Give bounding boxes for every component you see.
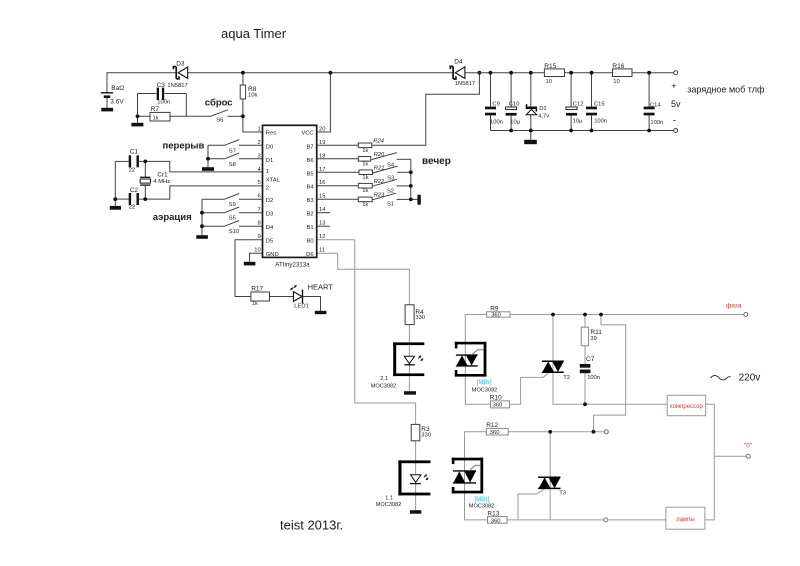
svg-text:18: 18: [319, 153, 325, 159]
svg-text:компрессор: компрессор: [670, 404, 703, 410]
wire C9 drop: [490, 73, 492, 107]
node bus S1: [409, 198, 413, 202]
svg-text:T2: T2: [563, 375, 570, 381]
box лампы: [666, 507, 705, 529]
capacitor C3: [157, 88, 171, 106]
svg-text:B0: B0: [307, 239, 314, 245]
svg-text:D2: D2: [539, 106, 546, 112]
wire C14 bottom: [648, 115, 650, 130]
svg-text:1k: 1k: [362, 202, 368, 208]
svg-text:S1: S1: [387, 202, 394, 208]
wire C12 bottom: [570, 115, 572, 130]
wire C10 drop: [510, 73, 512, 107]
wire S9 common: [202, 198, 225, 200]
node C10 bottom: [509, 129, 513, 133]
svg-text:S4: S4: [387, 163, 395, 169]
svg-text:S3: S3: [387, 176, 394, 182]
capacitor C10: [506, 102, 521, 126]
svg-text:R12: R12: [486, 422, 498, 429]
svg-text:[МВт]: [МВт]: [475, 497, 490, 503]
ground pin10: [244, 262, 256, 266]
svg-text:Cr1: Cr1: [157, 171, 168, 178]
wire pin16 to R22: [317, 185, 359, 187]
svg-text:GND: GND: [266, 252, 279, 258]
capacitor C12: [566, 101, 584, 124]
switch S2 blade: [372, 179, 397, 186]
svg-text:C12: C12: [573, 101, 584, 107]
switch S10 blade: [225, 221, 240, 227]
wire C7 to kompressor line: [584, 373, 586, 404]
wire R11 to C7: [584, 346, 586, 364]
node C15 bottom: [590, 129, 594, 133]
wire R17 to LED1: [270, 296, 294, 298]
ground under opto 1.1: [410, 510, 421, 514]
svg-text:перерыв: перерыв: [163, 141, 205, 152]
switch S9 blade: [225, 194, 240, 200]
resistor R10: [490, 395, 510, 409]
svg-text:D5: D5: [266, 239, 273, 245]
wire pin11 D6 to R4: [317, 253, 410, 305]
svg-text:S5: S5: [229, 216, 236, 222]
wire mains branch to connector: [594, 315, 626, 432]
svg-text:10: 10: [546, 79, 552, 85]
svg-text:вечер: вечер: [422, 156, 451, 167]
resistor R17: [251, 286, 270, 308]
terminal plus: [674, 71, 678, 75]
node D2 top: [529, 71, 533, 75]
svg-text:VCC: VCC: [301, 131, 313, 137]
ground under opto 2.1: [404, 391, 416, 395]
svg-text:S7: S7: [229, 149, 236, 155]
svg-text:HEART: HEART: [308, 283, 334, 292]
wire C15 bottom: [591, 115, 593, 130]
terminal minus: [674, 129, 678, 133]
wire pin14 stub: [317, 212, 330, 214]
node C12 top: [569, 71, 573, 75]
svg-text:19: 19: [319, 140, 325, 146]
svg-text:220v: 220v: [739, 373, 761, 384]
wire S9 to pin6: [239, 198, 263, 200]
wire T2 vertical: [553, 315, 667, 405]
svg-text:R20: R20: [374, 152, 385, 158]
svg-text:360: 360: [493, 403, 503, 409]
node rail VCC: [329, 71, 333, 75]
wire S1 contact: [397, 198, 411, 200]
wire pin12 B0 to R3: [317, 240, 416, 425]
resistor R23: [358, 193, 385, 209]
node C7 bottom: [583, 402, 587, 406]
svg-text:360: 360: [491, 518, 501, 524]
wire pin10 to ground: [250, 253, 263, 262]
wire R24 to 5v branch: [372, 73, 480, 146]
svg-text:11: 11: [319, 248, 325, 254]
svg-text:C7: C7: [586, 356, 595, 363]
wire R3 to opto1.1 LED and ground: [415, 441, 417, 510]
terminal фаза: [744, 313, 748, 317]
svg-text:1k: 1k: [362, 148, 368, 154]
wire pin18 to R20: [317, 158, 359, 160]
svg-text:D4: D4: [454, 58, 463, 65]
svg-text:13: 13: [319, 221, 325, 227]
svg-text:C2: C2: [130, 187, 139, 194]
svg-text:1k: 1k: [252, 301, 258, 307]
node C10 top: [509, 71, 513, 75]
svg-text:10µ: 10µ: [510, 119, 520, 125]
wire crystal top: [144, 161, 146, 177]
node rail branch: [478, 71, 482, 75]
terminal connector upper: [604, 430, 608, 434]
svg-text:S9: S9: [229, 202, 236, 208]
wire crystal bottom: [144, 185, 146, 199]
node R8 S6: [241, 114, 245, 118]
wire R7 right to S6: [170, 115, 211, 117]
switch S3 blade: [373, 166, 398, 173]
zener D2: [526, 104, 550, 119]
wire S10 to pin8: [239, 225, 263, 227]
svg-text:D6: D6: [306, 252, 313, 258]
resistor R12: [486, 422, 508, 436]
wire R9 left to opto triac upper: [465, 315, 490, 405]
opto T1.1 triac side box: [452, 458, 483, 494]
node connector junction: [592, 430, 596, 434]
svg-text:16: 16: [319, 180, 325, 186]
node C2 junction: [143, 197, 147, 201]
svg-text:D3: D3: [176, 61, 185, 68]
node S10 common: [200, 224, 204, 228]
wire battery to top rail: [107, 73, 176, 93]
node D2 bottom rail: [529, 129, 533, 133]
wire pin19 to R24: [317, 144, 359, 146]
wire R12 left to opto triac lower: [465, 432, 488, 520]
node bus S2: [409, 184, 413, 188]
ground under LED1: [315, 311, 327, 314]
svg-text:2.1: 2.1: [380, 376, 388, 382]
svg-text:1N5817: 1N5817: [167, 83, 187, 89]
wire C9 bottom: [490, 115, 492, 130]
switch S8 blade: [225, 153, 240, 159]
svg-text:MOC3082: MOC3082: [472, 388, 498, 394]
svg-text:-: -: [673, 116, 676, 127]
node C14 bottom: [647, 129, 651, 133]
LED inside opto 1.1: [410, 474, 429, 484]
wire S4 contact: [397, 158, 411, 160]
pin numbers left: [254, 126, 261, 253]
pin labels right: [301, 131, 314, 259]
svg-text:1k: 1k: [362, 188, 368, 194]
svg-text:39: 39: [590, 336, 596, 342]
svg-text:1: 1: [257, 126, 260, 132]
svg-text:B1: B1: [307, 225, 314, 231]
svg-text:teist 2013г.: teist 2013г.: [280, 518, 343, 533]
svg-text:8: 8: [257, 221, 260, 227]
svg-text:1k: 1k: [362, 175, 368, 181]
capacitor C9: [485, 102, 503, 126]
wire D2 bottom: [530, 115, 532, 140]
node S5 common: [200, 211, 204, 215]
wire R8 top: [242, 73, 244, 85]
svg-text:D1: D1: [266, 158, 273, 164]
ground under C1 C2: [110, 206, 121, 210]
resistor R22: [358, 179, 385, 194]
svg-text:+: +: [671, 81, 676, 91]
svg-text:22: 22: [129, 205, 135, 211]
capacitor C1: [129, 148, 139, 173]
wire pin13 stub: [317, 225, 330, 227]
resistor R20: [358, 152, 385, 168]
wire S3 contact: [397, 171, 411, 173]
svg-text:D4: D4: [266, 225, 274, 231]
svg-text:22: 22: [129, 167, 135, 173]
svg-text:10k: 10k: [248, 93, 257, 99]
wire S2 contact: [397, 185, 411, 187]
wire LED1 to ground: [303, 297, 321, 311]
wire pin9 to R17: [235, 240, 263, 297]
svg-text:LED1: LED1: [294, 304, 309, 310]
wire kompressor to lamps right bus: [705, 404, 714, 520]
wire pin15 to R23: [317, 198, 359, 200]
wire bottom rail: [491, 130, 674, 132]
svg-text:10: 10: [254, 248, 260, 254]
op-amp U1 ATtiny2313a body: [263, 125, 317, 257]
svg-text:1: 1: [266, 169, 269, 175]
svg-text:1N5817: 1N5817: [455, 81, 475, 87]
svg-text:7: 7: [257, 207, 260, 213]
svg-text:T3: T3: [559, 491, 566, 497]
resistor R16: [612, 63, 632, 85]
wire C2 right to xtal2 jog: [139, 186, 263, 199]
node mains branch: [599, 313, 603, 317]
wire VCC drop: [317, 73, 331, 132]
svg-text:5: 5: [257, 180, 260, 186]
svg-text:S8: S8: [229, 162, 236, 168]
resistor R21: [359, 165, 385, 181]
triac T2: [542, 361, 570, 381]
svg-text:[МВт]: [МВт]: [477, 380, 492, 386]
node R7 ground: [136, 114, 140, 118]
node R11 top: [583, 313, 587, 317]
wire pin17 to R21: [317, 171, 359, 173]
node rail R8: [241, 71, 245, 75]
pin labels left: [266, 131, 281, 259]
svg-text:B5: B5: [307, 171, 314, 177]
svg-text:12: 12: [319, 234, 325, 240]
svg-text:10µ: 10µ: [573, 119, 583, 125]
wire rail D4 to plus terminal: [465, 72, 674, 74]
node C12 bottom: [569, 129, 573, 133]
svg-text:C14: C14: [650, 103, 661, 109]
svg-text:S2: S2: [387, 188, 394, 194]
switch S7 blade: [225, 140, 240, 146]
svg-text:сброс: сброс: [205, 98, 233, 109]
wire D2 drop: [530, 73, 532, 107]
wire R12 line to connector circle: [508, 431, 604, 433]
wire R13 to T3 gate: [518, 489, 546, 520]
svg-text:17: 17: [319, 167, 325, 173]
svg-text:D0: D0: [266, 144, 273, 150]
ground under D2: [524, 140, 537, 144]
resistor R11: [581, 327, 602, 346]
node C15 top: [590, 71, 594, 75]
svg-text:B4: B4: [307, 185, 315, 191]
wire S7 S8 ground bus: [207, 145, 209, 167]
svg-text:MOC3082: MOC3082: [376, 502, 402, 508]
switch S1 blade: [372, 193, 396, 200]
wire S10 common: [202, 225, 225, 227]
pin numbers right: [319, 126, 326, 253]
svg-text:D3: D3: [266, 212, 273, 218]
terminal connector lower: [604, 518, 608, 522]
opto U2.1 LED side box: [393, 342, 424, 376]
wire R7 left to ground node: [138, 116, 151, 123]
crystal Cr1: [140, 171, 170, 185]
box компрессор: [667, 395, 706, 415]
terminal zero: [746, 454, 750, 458]
node C1 junction: [143, 160, 147, 164]
ground under battery: [101, 108, 113, 112]
svg-text:аэрация: аэрация: [153, 212, 192, 223]
wire R13 to lamps line: [507, 519, 666, 521]
node S7 S8 common: [206, 157, 210, 161]
wire S9 S5 S10 ground bus: [201, 199, 203, 235]
svg-text:Bat2: Bat2: [111, 85, 125, 92]
resistor R9: [487, 306, 510, 319]
svg-text:4,7v: 4,7v: [538, 113, 549, 119]
svg-text:2: 2: [257, 140, 260, 146]
opto T2.1 triac side box: [455, 342, 487, 377]
node C9 top: [489, 71, 493, 75]
svg-text:зарядное моб тлф: зарядное моб тлф: [687, 84, 765, 94]
svg-text:9: 9: [257, 234, 260, 240]
ground under R7: [131, 123, 143, 127]
wire C1 left: [115, 160, 128, 162]
wire switch bus vertical: [411, 159, 418, 199]
wire T3 vertical: [549, 432, 551, 520]
svg-text:100n: 100n: [650, 120, 663, 126]
svg-text:B3: B3: [307, 198, 314, 204]
wire C1 right to xtal1 jog: [139, 161, 263, 172]
wire S7 to pin2: [239, 144, 263, 146]
wire R4 to opto2.1 LED and ground: [408, 325, 410, 392]
node C14 top: [647, 71, 651, 75]
svg-text:XTAL: XTAL: [266, 178, 281, 184]
svg-text:R15: R15: [544, 63, 556, 70]
svg-text:C1: C1: [130, 148, 139, 155]
svg-text:1.1: 1.1: [385, 495, 393, 501]
svg-text:R24: R24: [373, 138, 384, 144]
svg-text:330: 330: [415, 315, 425, 321]
wire S5 common: [202, 212, 225, 214]
LED LED1: [290, 285, 309, 310]
svg-text:"0": "0": [744, 442, 753, 449]
svg-text:ATtiny2313a: ATtiny2313a: [275, 262, 310, 269]
wire C3 right leg: [164, 94, 186, 117]
ground under S10: [196, 235, 208, 239]
capacitor C7: [580, 356, 600, 381]
wire top rail D3 to D4: [188, 72, 454, 74]
wire C15 drop: [591, 73, 593, 107]
svg-text:100n: 100n: [587, 375, 600, 381]
svg-text:R22: R22: [374, 179, 385, 185]
svg-text:R23: R23: [374, 193, 385, 199]
diode D3 1N5817: [173, 61, 187, 79]
svg-text:5v: 5v: [671, 99, 681, 109]
wire R8 bottom to pin1: [243, 99, 263, 132]
resistor R13: [487, 511, 507, 525]
wire battery minus to ground: [106, 98, 108, 108]
svg-text:B6: B6: [307, 158, 314, 164]
wire C14 drop: [648, 73, 650, 107]
wire C3 loop: [138, 94, 157, 117]
svg-text:14: 14: [319, 207, 326, 213]
node T2 top: [551, 313, 555, 317]
svg-text:B2: B2: [307, 212, 314, 218]
svg-text:330: 330: [421, 433, 431, 439]
svg-text:B7: B7: [307, 144, 314, 150]
switch S6 blade: [211, 110, 228, 117]
svg-text:15: 15: [319, 194, 325, 200]
svg-text:100n: 100n: [157, 100, 170, 106]
svg-text:100n: 100n: [490, 119, 503, 125]
wire S8 common: [208, 158, 225, 160]
wire S7 common: [208, 144, 225, 146]
svg-text:360: 360: [490, 430, 500, 436]
svg-text:100n: 100n: [594, 119, 607, 125]
node T3 top: [548, 430, 552, 434]
svg-text:R16: R16: [612, 63, 624, 70]
svg-text:C9: C9: [492, 102, 499, 108]
resistor R3: [411, 424, 431, 440]
triac symbol inside upper opto: [456, 350, 484, 366]
svg-text:3: 3: [257, 153, 260, 159]
svg-text:R10: R10: [490, 395, 502, 402]
svg-text:MOC3082: MOC3082: [469, 504, 495, 510]
triac T3: [538, 477, 566, 496]
symbol AC tilde: [711, 375, 731, 379]
wire S6 to R8 node: [228, 115, 243, 117]
wire phase rail R9 to terminal: [510, 314, 744, 316]
wire S5 to pin7: [239, 212, 263, 214]
svg-text:C10: C10: [509, 102, 520, 108]
capacitor C2: [129, 187, 139, 211]
svg-text:Res: Res: [266, 131, 276, 137]
resistor R15: [544, 63, 564, 85]
node bus S3: [409, 170, 413, 174]
switch S4 blade: [372, 153, 397, 160]
svg-text:2: 2: [266, 186, 269, 192]
svg-text:лампы: лампы: [676, 517, 695, 523]
svg-text:1k: 1k: [153, 115, 159, 121]
svg-text:20: 20: [319, 126, 325, 132]
resistor R7: [150, 106, 170, 121]
svg-text:1k: 1k: [362, 162, 368, 168]
wire C10 bottom: [510, 115, 512, 130]
ground switch bus: [417, 195, 420, 205]
switch S5 blade: [225, 207, 240, 213]
svg-text:C15: C15: [594, 101, 605, 107]
svg-text:D2: D2: [266, 198, 273, 204]
svg-text:10: 10: [613, 79, 619, 85]
wire S8 to pin3: [239, 158, 263, 160]
svg-text:3.6V: 3.6V: [110, 98, 124, 105]
svg-text:S6: S6: [216, 117, 223, 123]
LED inside opto 2.1: [404, 355, 423, 365]
svg-text:4 MHz: 4 MHz: [153, 179, 170, 185]
ground under S8: [202, 167, 214, 171]
svg-text:R17: R17: [251, 286, 263, 293]
node cap bus ground: [113, 197, 117, 201]
resistor R8: [240, 85, 257, 99]
svg-text:фаза: фаза: [726, 302, 742, 309]
